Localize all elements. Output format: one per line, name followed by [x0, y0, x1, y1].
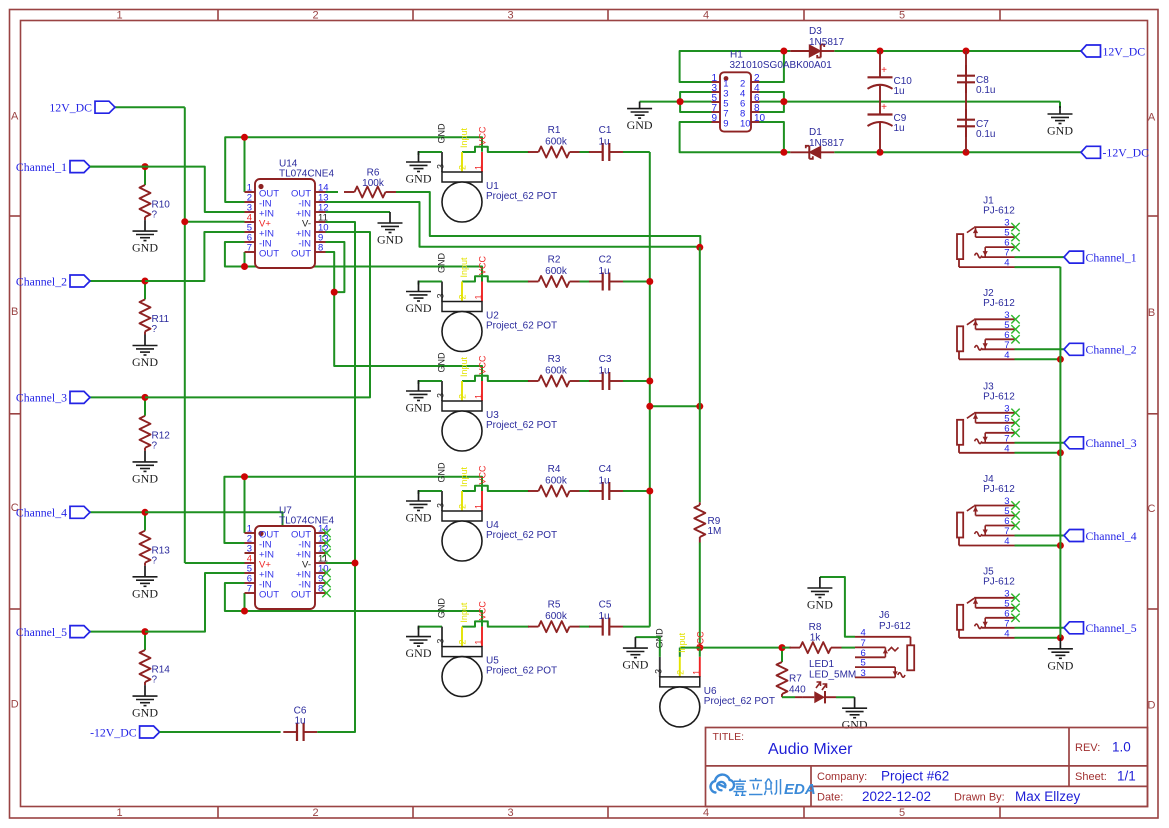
svg-text:Project_62 POT: Project_62 POT: [486, 666, 557, 677]
svg-text:GND: GND: [406, 511, 432, 525]
svg-text:J6: J6: [879, 610, 890, 621]
svg-text:Project_62 POT: Project_62 POT: [486, 191, 557, 202]
svg-text:3: 3: [436, 293, 446, 298]
svg-text:3: 3: [436, 503, 446, 508]
svg-text:Channel_2: Channel_2: [16, 274, 67, 288]
svg-text:1/1: 1/1: [1117, 769, 1136, 784]
svg-text:Audio Mixer: Audio Mixer: [768, 741, 853, 758]
svg-text:R5: R5: [548, 600, 561, 611]
svg-text:10: 10: [740, 119, 751, 130]
svg-text:3: 3: [436, 164, 446, 169]
svg-text:C3: C3: [599, 354, 612, 365]
svg-text:1: 1: [691, 670, 701, 675]
svg-text:?: ?: [152, 555, 158, 566]
svg-text:OUT: OUT: [291, 249, 311, 260]
svg-text:1u: 1u: [894, 123, 905, 134]
svg-text:600k: 600k: [545, 611, 568, 622]
svg-text:3: 3: [436, 393, 446, 398]
svg-text:GND: GND: [132, 706, 158, 720]
svg-text:C: C: [1148, 503, 1156, 515]
svg-text:R7: R7: [789, 674, 802, 685]
svg-text:B: B: [11, 306, 18, 318]
svg-text:4: 4: [703, 807, 709, 819]
svg-text:Project_62 POT: Project_62 POT: [704, 696, 775, 707]
svg-text:GND: GND: [437, 462, 447, 483]
svg-text:Channel_3: Channel_3: [16, 391, 67, 405]
svg-text:VCC: VCC: [478, 255, 488, 275]
svg-text:10: 10: [754, 113, 766, 124]
svg-text:Project_62 POT: Project_62 POT: [486, 321, 557, 332]
svg-text:C5: C5: [599, 600, 612, 611]
svg-text:1u: 1u: [598, 137, 609, 148]
svg-text:Date:: Date:: [817, 792, 843, 804]
svg-text:3: 3: [507, 10, 513, 22]
svg-text:TL074CNE4: TL074CNE4: [279, 169, 334, 180]
svg-text:600k: 600k: [545, 476, 568, 487]
svg-text:3: 3: [861, 668, 866, 679]
svg-text:-12V_DC: -12V_DC: [1103, 146, 1150, 160]
svg-text:Drawn By:: Drawn By:: [954, 792, 1005, 804]
svg-text:7: 7: [247, 243, 252, 254]
svg-text:1u: 1u: [294, 716, 305, 727]
svg-text:R3: R3: [548, 354, 561, 365]
svg-text:1k: 1k: [810, 633, 822, 644]
svg-text:GND: GND: [842, 718, 868, 732]
svg-text:PJ-612: PJ-612: [983, 576, 1015, 587]
svg-text:D1: D1: [809, 127, 822, 138]
svg-text:12V_DC: 12V_DC: [49, 101, 92, 115]
svg-text:Channel_4: Channel_4: [16, 506, 67, 520]
svg-text:GND: GND: [406, 301, 432, 315]
svg-text:600k: 600k: [545, 366, 568, 377]
svg-text:?: ?: [152, 324, 158, 335]
svg-text:GND: GND: [406, 172, 432, 186]
svg-text:Channel_4: Channel_4: [1086, 529, 1137, 543]
svg-text:3: 3: [436, 639, 446, 644]
svg-text:GND: GND: [406, 401, 432, 415]
svg-text:3: 3: [507, 807, 513, 819]
svg-text:Channel_2: Channel_2: [1086, 343, 1137, 357]
svg-text:A: A: [11, 111, 19, 123]
svg-text:REV:: REV:: [1075, 742, 1100, 754]
svg-text:R8: R8: [809, 622, 822, 633]
svg-text:C1: C1: [599, 125, 612, 136]
svg-text:Input: Input: [459, 356, 469, 377]
svg-text:R6: R6: [367, 168, 380, 179]
svg-text:A: A: [1148, 112, 1156, 124]
svg-text:12V_DC: 12V_DC: [1103, 44, 1146, 58]
svg-text:2: 2: [312, 807, 318, 819]
svg-text:OUT: OUT: [259, 249, 279, 260]
svg-text:OUT: OUT: [291, 590, 311, 601]
svg-text:?: ?: [152, 440, 158, 451]
svg-text:GND: GND: [437, 598, 447, 619]
svg-text:Input: Input: [459, 127, 469, 148]
svg-text:600k: 600k: [545, 137, 568, 148]
svg-text:?: ?: [152, 210, 158, 221]
svg-text:1: 1: [474, 165, 484, 170]
svg-text:1: 1: [474, 294, 484, 299]
svg-text:Max Ellzey: Max Ellzey: [1015, 789, 1081, 804]
svg-text:Input: Input: [459, 466, 469, 487]
svg-text:1: 1: [116, 10, 122, 22]
svg-text:D3: D3: [809, 26, 822, 37]
svg-text:GND: GND: [1047, 658, 1073, 672]
svg-text:Input: Input: [677, 632, 687, 653]
svg-text:R4: R4: [548, 464, 561, 475]
svg-text:8: 8: [318, 243, 323, 254]
svg-text:7: 7: [247, 584, 252, 595]
svg-text:2022-12-02: 2022-12-02: [862, 789, 931, 804]
svg-text:2: 2: [458, 504, 468, 509]
svg-text:Sheet:: Sheet:: [1075, 771, 1107, 783]
svg-text:+: +: [881, 102, 887, 113]
svg-text:1N5817: 1N5817: [809, 138, 844, 149]
svg-text:GND: GND: [132, 586, 158, 600]
svg-text:B: B: [1148, 307, 1155, 319]
svg-text:GND: GND: [437, 352, 447, 373]
svg-text:2: 2: [458, 394, 468, 399]
svg-text:1: 1: [474, 640, 484, 645]
svg-text:0.1u: 0.1u: [976, 129, 995, 140]
svg-text:C2: C2: [599, 255, 612, 266]
svg-text:PJ-612: PJ-612: [879, 621, 911, 632]
svg-text:VCC: VCC: [478, 601, 488, 621]
svg-text:GND: GND: [1047, 124, 1073, 138]
svg-text:440: 440: [789, 685, 806, 696]
svg-text:VCC: VCC: [478, 355, 488, 375]
svg-text:EDA: EDA: [784, 781, 816, 798]
svg-text:LED_5MM: LED_5MM: [809, 670, 856, 681]
svg-text:1u: 1u: [894, 86, 905, 97]
svg-text:PJ-612: PJ-612: [983, 298, 1015, 309]
svg-text:D: D: [11, 699, 19, 711]
svg-text:VCC: VCC: [695, 631, 705, 651]
svg-text:R2: R2: [548, 255, 561, 266]
svg-text:4: 4: [1004, 536, 1009, 547]
svg-text:Project_62 POT: Project_62 POT: [486, 420, 557, 431]
svg-text:Channel_1: Channel_1: [16, 160, 67, 174]
svg-text:GND: GND: [437, 123, 447, 144]
svg-text:3: 3: [653, 669, 663, 674]
svg-text:4: 4: [1004, 350, 1009, 361]
svg-text:0.1u: 0.1u: [976, 85, 995, 96]
svg-text:Channel_5: Channel_5: [1086, 621, 1137, 635]
svg-text:1u: 1u: [598, 611, 609, 622]
svg-text:R1: R1: [548, 125, 561, 136]
svg-text:D: D: [1148, 700, 1156, 712]
svg-text:Input: Input: [459, 602, 469, 623]
svg-text:4: 4: [1004, 628, 1009, 639]
svg-text:1: 1: [474, 394, 484, 399]
svg-text:1: 1: [116, 807, 122, 819]
svg-text:321010SG0ABK00A01: 321010SG0ABK00A01: [730, 60, 833, 71]
svg-text:2: 2: [458, 294, 468, 299]
svg-text:C4: C4: [599, 464, 612, 475]
svg-text:2: 2: [458, 640, 468, 645]
svg-text:2: 2: [458, 165, 468, 170]
svg-text:+: +: [881, 65, 887, 76]
svg-text:GND: GND: [622, 658, 648, 672]
svg-text:Project_62 POT: Project_62 POT: [486, 530, 557, 541]
svg-text:Input: Input: [459, 257, 469, 278]
svg-text:TL074CNE4: TL074CNE4: [279, 516, 334, 527]
svg-text:9: 9: [723, 119, 728, 130]
svg-text:2: 2: [675, 670, 685, 675]
svg-text:GND: GND: [437, 253, 447, 274]
svg-text:PJ-612: PJ-612: [983, 484, 1015, 495]
svg-text:Company:: Company:: [817, 771, 867, 783]
svg-text:PJ-612: PJ-612: [983, 391, 1015, 402]
svg-text:VCC: VCC: [478, 126, 488, 146]
svg-text:5: 5: [899, 10, 905, 22]
svg-text:H1: H1: [730, 50, 743, 61]
svg-text:GND: GND: [132, 355, 158, 369]
svg-text:2: 2: [312, 10, 318, 22]
svg-text:1u: 1u: [598, 266, 609, 277]
svg-text:4: 4: [703, 10, 709, 22]
svg-text:1.0: 1.0: [1112, 740, 1131, 755]
svg-text:1: 1: [474, 504, 484, 509]
svg-text:?: ?: [152, 675, 158, 686]
svg-text:GND: GND: [807, 598, 833, 612]
svg-text:600k: 600k: [545, 266, 568, 277]
svg-text:1u: 1u: [598, 476, 609, 487]
svg-text:PJ-612: PJ-612: [983, 206, 1015, 217]
svg-text:Project #62: Project #62: [881, 769, 949, 784]
svg-text:-12V_DC: -12V_DC: [90, 725, 137, 739]
svg-text:1N5817: 1N5817: [809, 37, 844, 48]
svg-text:4: 4: [1004, 258, 1009, 269]
svg-text:OUT: OUT: [259, 590, 279, 601]
svg-text:GND: GND: [132, 241, 158, 255]
svg-text:1M: 1M: [708, 526, 722, 537]
svg-text:TITLE:: TITLE:: [713, 731, 745, 743]
svg-text:1u: 1u: [598, 366, 609, 377]
svg-text:5: 5: [899, 807, 905, 819]
svg-text:4: 4: [1004, 443, 1009, 454]
svg-text:Channel_5: Channel_5: [16, 625, 67, 639]
svg-text:100k: 100k: [362, 178, 385, 189]
svg-text:9: 9: [711, 113, 717, 124]
svg-text:GND: GND: [627, 118, 653, 132]
svg-text:GND: GND: [377, 233, 403, 247]
svg-text:VCC: VCC: [478, 465, 488, 485]
svg-text:GND: GND: [132, 471, 158, 485]
svg-text:GND: GND: [406, 646, 432, 660]
svg-text:Channel_3: Channel_3: [1086, 436, 1137, 450]
svg-text:4: 4: [861, 627, 866, 638]
svg-text:LED1: LED1: [809, 659, 834, 670]
svg-text:Channel_1: Channel_1: [1086, 250, 1137, 264]
